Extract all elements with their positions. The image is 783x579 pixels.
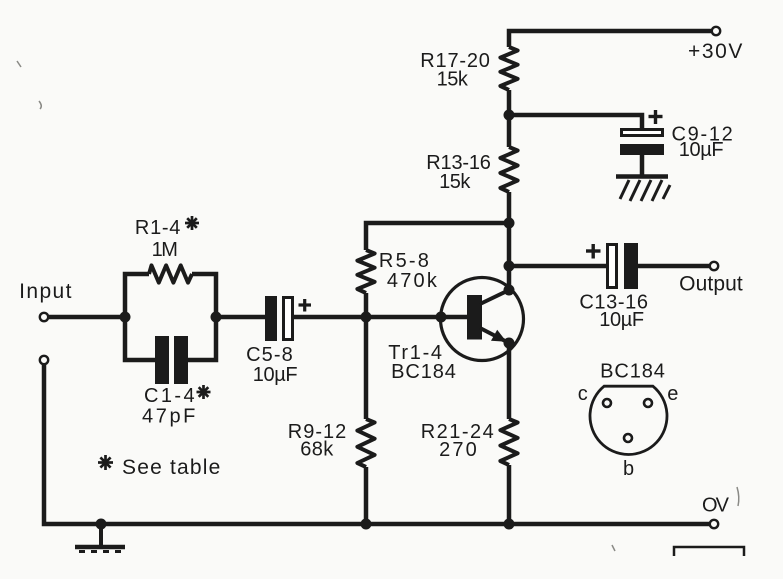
svg-text:c: c [578,383,588,405]
node parallel right [211,312,222,323]
svg-text:Output: Output [679,273,743,296]
wire base branch down to R9-12 [364,317,369,419]
capacitor C13-16 left plate (hollow +) [608,245,617,288]
asterisk after R1-4 [185,216,199,230]
wire R9-12 to 0V rail [364,467,369,524]
svg-text:BC184: BC184 [600,361,666,383]
capacitor C9-12 bottom plate (solid) [620,144,664,155]
capacitor C1-4 left plate [155,336,169,384]
svg-text:10µF: 10µF [599,309,644,331]
ground hatching [620,180,670,201]
table frame fragment bottom right [674,547,744,556]
wire parallel block top branch right [192,274,216,317]
svg-text:BC184: BC184 [391,361,457,383]
resistor R9-12 [357,419,374,467]
wire collector node to C13-16 [509,264,606,269]
svg-text:b: b [623,458,635,480]
capacitor C5-8 left plate (solid) [265,296,277,341]
node emitter junction [504,338,515,349]
plus sign C13-16 [586,244,601,259]
wire C9-12 to ground [640,155,645,176]
svg-text:Input: Input [19,280,73,303]
capacitor C5-8 right plate (hollow +) [284,298,293,340]
svg-text:+30V: +30V [688,40,744,63]
svg-text:R5-8: R5-8 [379,250,431,272]
terminal input lower [40,356,48,364]
node R21-24 rail [504,519,515,530]
BC184 pin c [603,399,611,407]
wire node down to R13-16 [507,115,512,147]
resistor R21-24 [500,419,517,465]
wire parallel block bottom branch right [188,317,216,360]
capacitor C9-12 top plate (hollow +) [622,130,663,136]
node output junction [504,261,515,272]
node feedback junction [504,218,515,229]
wire collector rail [507,192,512,290]
svg-text:C1-4: C1-4 [144,385,197,407]
wire R5-8 to base node [364,293,369,317]
wire lower input terminal down to 0V rail and 0V bottom rail [44,365,711,524]
svg-text:270: 270 [439,439,479,461]
svg-text:10µF: 10µF [253,364,298,386]
svg-text:15k: 15k [439,171,471,193]
wire right node to C5-8 [216,315,265,320]
node ground rail [96,519,107,530]
resistor R13-16 [500,147,517,192]
wire R17-20 bottom to node [507,90,512,115]
svg-text:47pF: 47pF [142,406,198,428]
wire parallel block bottom branch left [125,317,155,360]
wire C13-16 to output terminal [638,264,709,269]
terminal input upper [40,313,48,321]
wire feedback to R5-8 [366,223,509,250]
svg-text:C5-8: C5-8 [246,344,294,366]
transistor Tr1-4 base bar [467,295,482,340]
capacitor C1-4 right plate [174,336,188,384]
plus sign C9-12 [649,110,663,124]
svg-text:See table: See table [122,456,222,479]
node R9-12 rail [361,519,372,530]
node R17/R13 junction [504,110,515,121]
wire node to C9-12 [509,115,642,129]
wire C5-8 right plate to base node [294,315,366,320]
BC184 pin e [644,399,652,407]
svg-text:OV: OV [702,495,730,517]
node parallel left [120,312,131,323]
wire parallel block top branch left [125,274,149,317]
transistor Q1 Tr1-4 circle [441,278,524,361]
wire top rail +30V [509,31,711,47]
transistor Tr1-4 emitter lead [480,328,509,343]
svg-text:1M: 1M [152,239,178,261]
terminal 0V [710,520,718,528]
terminal output [710,262,718,270]
asterisk see table note [98,455,113,470]
BC184 pinout package [590,386,667,454]
scan speck marks [17,61,739,551]
wire R21-24 to 0V rail [507,465,512,524]
svg-text:15k: 15k [437,69,469,91]
svg-text:10µF: 10µF [679,139,724,161]
BC184 pin b [624,434,632,442]
node base junction [361,312,372,323]
node collector junction [504,285,515,296]
svg-text:R1-4: R1-4 [135,217,181,239]
resistor R17-20 [500,47,517,90]
capacitor C13-16 right plate (solid) [624,243,638,289]
plus sign C5-8 [299,299,312,312]
node base at transistor [436,312,447,323]
wire input terminal to parallel block [49,315,125,320]
svg-text:470k: 470k [387,270,439,292]
terminal +30V [712,27,720,35]
svg-text:68k: 68k [300,439,334,461]
ground chassis bar [616,174,668,179]
wire emitter down to R21-24 [507,343,512,419]
asterisk after C1-4 [197,385,211,399]
resistor R5-8 [357,250,374,293]
svg-text:e: e [667,383,679,405]
transistor Tr1-4 emitter arrow [491,330,507,342]
ground symbol at 0V rail [75,524,125,552]
resistor R1-4 [149,265,192,282]
wire base node to transistor base [366,315,467,320]
transistor Tr1-4 collector lead [480,290,509,304]
